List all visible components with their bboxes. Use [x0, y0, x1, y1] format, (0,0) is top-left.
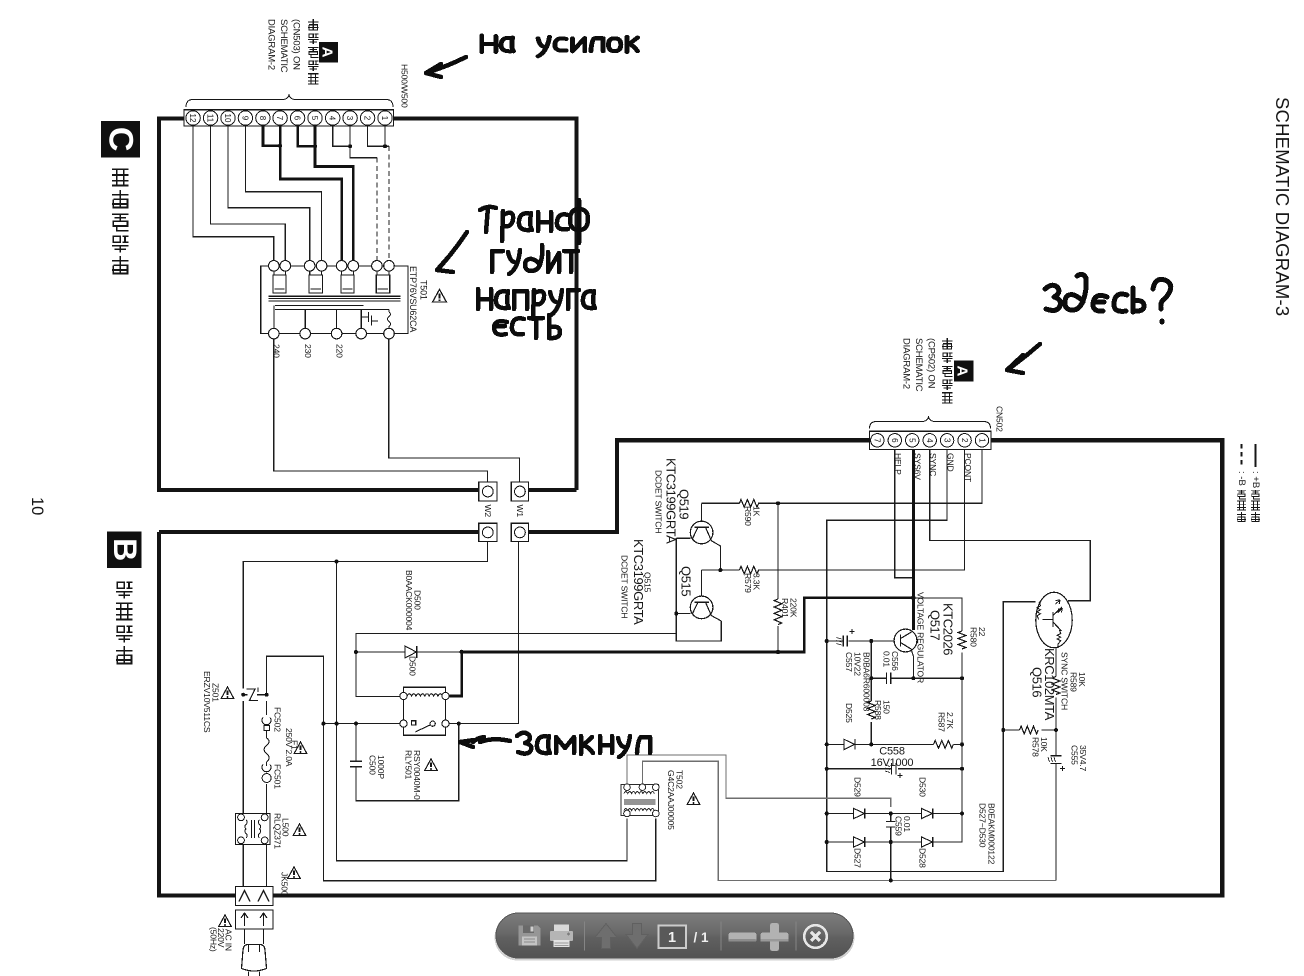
svg-text:2: 2 — [960, 438, 969, 443]
svg-text:W1: W1 — [515, 505, 525, 518]
svg-text:Q516: Q516 — [1030, 667, 1045, 697]
svg-text:RLY501: RLY501 — [404, 750, 414, 780]
svg-text:D500: D500 — [408, 656, 418, 676]
svg-text:220K: 220K — [789, 598, 799, 618]
svg-text:CN502: CN502 — [995, 406, 1005, 432]
svg-text:7: 7 — [873, 438, 882, 443]
svg-text:DIAGRAM-2: DIAGRAM-2 — [266, 19, 277, 70]
svg-text:10K: 10K — [1077, 672, 1087, 687]
svg-text:C559: C559 — [894, 816, 904, 836]
svg-text:: -B: : -B — [1236, 471, 1247, 486]
svg-text:VOLTAGE REGULATOR: VOLTAGE REGULATOR — [916, 592, 926, 683]
svg-text:RSY0040M-0: RSY0040M-0 — [412, 750, 422, 800]
svg-text:5: 5 — [310, 116, 319, 121]
svg-text:R587: R587 — [937, 712, 947, 732]
svg-text:0.01: 0.01 — [882, 651, 892, 667]
svg-text:R401: R401 — [780, 598, 790, 618]
svg-text:SYS6V: SYS6V — [913, 453, 923, 480]
svg-text:220: 220 — [335, 344, 345, 358]
svg-text:R579: R579 — [743, 573, 753, 593]
svg-text:H500/W500: H500/W500 — [400, 64, 410, 108]
svg-text:12: 12 — [188, 114, 197, 123]
svg-text:KTC3199GRTA: KTC3199GRTA — [631, 539, 646, 625]
svg-text:1: 1 — [977, 438, 986, 443]
svg-text:8: 8 — [258, 116, 267, 121]
svg-text:Q515: Q515 — [679, 566, 694, 596]
svg-text:(50Hz): (50Hz) — [209, 927, 219, 952]
svg-text:FC502: FC502 — [273, 707, 283, 732]
svg-text:4: 4 — [328, 116, 337, 121]
svg-text:240: 240 — [272, 344, 282, 358]
svg-text:PCONT: PCONT — [963, 453, 973, 483]
svg-text:R588: R588 — [873, 700, 883, 720]
svg-text:/ 1: / 1 — [693, 930, 709, 945]
svg-text:: +B: : +B — [1250, 471, 1261, 488]
svg-text:R578: R578 — [1031, 737, 1041, 757]
svg-text:D530: D530 — [918, 777, 928, 797]
svg-text:T501: T501 — [419, 280, 429, 300]
svg-text:3: 3 — [345, 116, 354, 121]
svg-text:6: 6 — [890, 438, 899, 443]
svg-text:35V4.7: 35V4.7 — [1078, 745, 1088, 771]
svg-text:22: 22 — [977, 627, 987, 637]
svg-text:C: C — [102, 127, 140, 152]
svg-text:HELP: HELP — [893, 453, 903, 475]
svg-text:(CN503) ON: (CN503) ON — [291, 19, 302, 70]
svg-text:10: 10 — [28, 497, 46, 515]
svg-text:A: A — [954, 365, 971, 376]
svg-text:230: 230 — [303, 344, 313, 358]
svg-text:D525: D525 — [844, 703, 854, 723]
svg-text:DCDET SWITCH: DCDET SWITCH — [654, 470, 664, 533]
svg-text:3.3K: 3.3K — [752, 573, 762, 590]
svg-text:10V22: 10V22 — [853, 652, 863, 676]
svg-text:SCHEMATIC DIAGRAM-3: SCHEMATIC DIAGRAM-3 — [1272, 97, 1293, 316]
svg-text:SYNC SWITCH: SYNC SWITCH — [1060, 652, 1070, 710]
svg-text:3: 3 — [942, 438, 951, 443]
svg-text:4: 4 — [925, 438, 934, 443]
svg-text:SCHEMATIC: SCHEMATIC — [913, 338, 924, 392]
svg-text:JK500: JK500 — [280, 872, 290, 896]
svg-text:C556: C556 — [890, 651, 900, 671]
svg-text:0.01: 0.01 — [902, 816, 912, 832]
svg-text:R580: R580 — [969, 627, 979, 647]
svg-text:R589: R589 — [1069, 672, 1079, 692]
svg-text:SYNC: SYNC — [928, 453, 938, 476]
svg-text:B0EAKM000122: B0EAKM000122 — [987, 803, 997, 865]
svg-text:10: 10 — [223, 114, 232, 123]
svg-text:C557: C557 — [844, 652, 854, 672]
svg-text:SCHEMATIC: SCHEMATIC — [278, 19, 289, 73]
svg-text:1: 1 — [668, 930, 676, 946]
svg-text:6: 6 — [293, 116, 302, 121]
svg-text:RLQZ371: RLQZ371 — [273, 813, 283, 849]
svg-text:D529: D529 — [853, 777, 863, 797]
svg-text:Q517: Q517 — [928, 610, 943, 640]
svg-text:5: 5 — [908, 438, 917, 443]
svg-text:D528: D528 — [918, 848, 928, 868]
svg-text:2: 2 — [363, 116, 372, 121]
svg-text:ERZV10V511CS: ERZV10V511CS — [202, 671, 212, 733]
svg-text:D527: D527 — [853, 848, 863, 868]
svg-text:7: 7 — [275, 116, 284, 121]
svg-text:1: 1 — [380, 116, 389, 121]
svg-text:D527~D530: D527~D530 — [978, 803, 988, 848]
svg-text:ETP76VSU62CA: ETP76VSU62CA — [408, 266, 418, 332]
svg-text:10K: 10K — [1039, 737, 1049, 752]
svg-text:W2: W2 — [483, 505, 493, 518]
svg-text:16V1000: 16V1000 — [871, 757, 914, 769]
svg-text:9: 9 — [240, 116, 249, 121]
svg-text:KTC3199GRTA: KTC3199GRTA — [664, 458, 679, 544]
svg-text:A: A — [319, 47, 336, 58]
svg-text:1K: 1K — [752, 506, 762, 517]
svg-text:150: 150 — [882, 700, 892, 714]
svg-text:B: B — [107, 538, 143, 561]
svg-text:2.7K: 2.7K — [945, 712, 955, 729]
svg-text:DCDET SWITCH: DCDET SWITCH — [620, 555, 630, 618]
svg-text:B0BA6R600008: B0BA6R600008 — [862, 652, 872, 712]
svg-text:C555: C555 — [1070, 745, 1080, 765]
svg-text:C558: C558 — [879, 746, 905, 758]
svg-text:1000P: 1000P — [376, 755, 386, 779]
svg-text:R590: R590 — [743, 506, 753, 526]
svg-text:FC501: FC501 — [273, 764, 283, 789]
svg-text:(CP502) ON: (CP502) ON — [926, 338, 937, 389]
svg-text:F1: F1 — [290, 740, 300, 750]
svg-text:G4C2AAJ00005: G4C2AAJ00005 — [666, 770, 676, 830]
svg-text:B0AACK000004: B0AACK000004 — [404, 570, 414, 631]
svg-text:GND: GND — [946, 453, 956, 472]
svg-text:11: 11 — [206, 114, 215, 123]
svg-text:DIAGRAM-2: DIAGRAM-2 — [901, 338, 912, 389]
svg-text:C500: C500 — [368, 755, 378, 775]
